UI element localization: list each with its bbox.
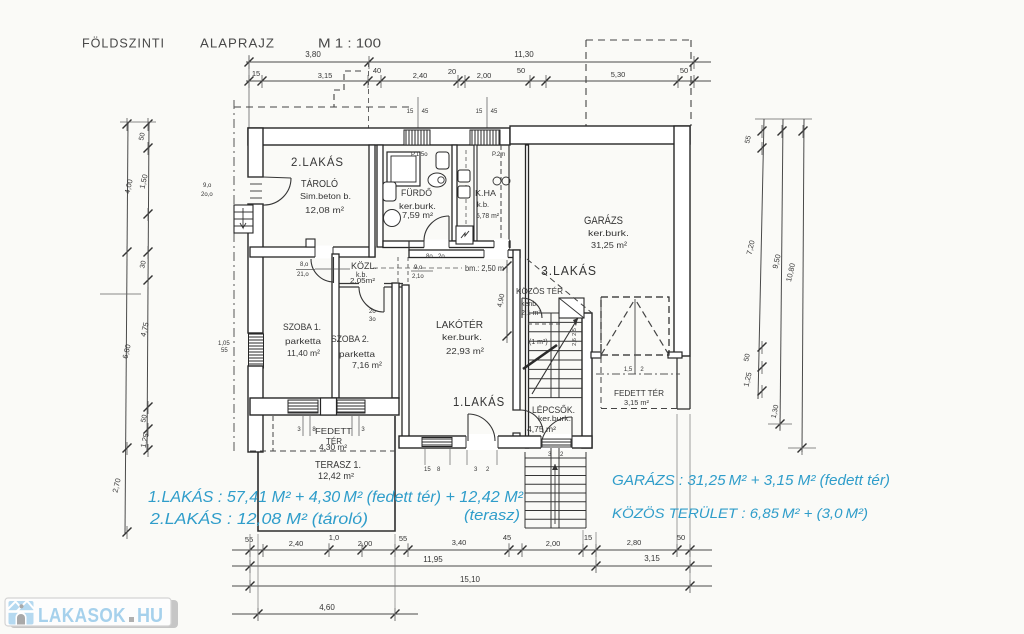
svg-text:15: 15 <box>584 533 592 542</box>
svg-text:2,5: 2,5 <box>572 328 578 336</box>
wall LAKOTER right lower <box>513 433 520 437</box>
svg-text:45: 45 <box>503 533 511 542</box>
svg-text:3: 3 <box>297 427 301 433</box>
svg-text:9,50: 9,50 <box>771 253 783 269</box>
svg-text:21,o: 21,o <box>297 272 309 278</box>
svg-text:1,50: 1,50 <box>138 173 150 189</box>
wall LAKOTER left <box>402 285 409 437</box>
svg-text:2o,o: 2o,o <box>201 192 213 198</box>
svg-text:k.b.: k.b. <box>477 200 489 209</box>
svg-text:4,75 m²: 4,75 m² <box>527 425 556 434</box>
svg-text:7,59 m²: 7,59 m² <box>402 211 433 220</box>
svg-text:2.LAKÁS : 12,08 M² (tároló): 2.LAKÁS : 12,08 M² (tároló) <box>149 511 368 528</box>
shaft boiler boxes <box>458 170 470 182</box>
dashed line fedett ter bottom <box>250 450 395 452</box>
window top W2 <box>470 130 500 145</box>
svg-text:2,00: 2,00 <box>477 71 492 80</box>
svg-text:7,16 m²: 7,16 m² <box>352 360 382 370</box>
svg-text:M 1 : 100: M 1 : 100 <box>318 36 381 51</box>
watermark house icon <box>9 601 34 625</box>
outdoor stair arrow <box>554 464 556 524</box>
svg-text:50: 50 <box>677 533 685 542</box>
svg-text:2: 2 <box>486 467 490 473</box>
door arc main entry <box>467 414 469 441</box>
svg-text:15: 15 <box>424 467 431 473</box>
svg-text:LÉPCSŐK.: LÉPCSŐK. <box>532 405 575 415</box>
dashed corridor boundary to LAKOTER <box>397 257 399 285</box>
svg-text:TÁROLÓ: TÁROLÓ <box>301 177 338 190</box>
svg-text:8,o: 8,o <box>300 262 309 268</box>
wall LAKOTER right upper <box>513 250 520 410</box>
staircase walk line with arrow <box>532 318 578 394</box>
dash-dot inner line covered parking <box>596 373 680 375</box>
closet rect kozos ter <box>559 298 584 318</box>
svg-text:55: 55 <box>245 535 253 544</box>
svg-text:10,80: 10,80 <box>784 262 797 282</box>
svg-text:2,80: 2,80 <box>627 538 642 547</box>
svg-text:50: 50 <box>138 132 147 141</box>
dashed overhang step <box>334 71 361 107</box>
svg-text:1.LAKÁS : 57,41 M² + 4,30 M²: 1.LAKÁS : 57,41 M² + 4,30 M² (fedett tér… <box>148 489 524 506</box>
svg-text:SZOBA 1.: SZOBA 1. <box>283 322 321 333</box>
svg-text:2,70: 2,70 <box>111 477 123 493</box>
svg-text:ker.burk.: ker.burk. <box>588 229 629 238</box>
svg-text:2,40: 2,40 <box>413 71 428 80</box>
svg-text:4,00: 4,00 <box>123 178 135 194</box>
svg-text:3: 3 <box>474 467 478 473</box>
svg-text:7,20: 7,20 <box>745 239 757 255</box>
left window extension line <box>100 293 141 295</box>
right dimension chain line C <box>758 119 764 399</box>
svg-text:45: 45 <box>422 109 429 115</box>
svg-text:15: 15 <box>252 69 260 78</box>
window top W1 <box>404 130 430 145</box>
svg-text:1,25: 1,25 <box>742 371 754 387</box>
top dimension chain line 2 <box>246 80 711 82</box>
svg-text:2,1o: 2,1o <box>412 274 424 280</box>
left dimension chain line B <box>147 122 149 452</box>
svg-text:50: 50 <box>743 353 752 362</box>
wall LAKOTER right door gap jambs <box>513 409 520 411</box>
entry door opening <box>466 434 498 450</box>
wall SZOBA2 right <box>392 283 399 398</box>
svg-text:15: 15 <box>407 109 414 115</box>
svg-text:ALAPRAJZ: ALAPRAJZ <box>200 36 275 51</box>
dashed diagonal to 3.LAKAS entry <box>527 259 592 313</box>
svg-text:parketta: parketta <box>339 349 375 359</box>
vertical dim 4,90 in LAKOTER <box>506 264 508 338</box>
svg-text:11,95: 11,95 <box>423 555 443 564</box>
wall bathroom right <box>452 145 457 241</box>
svg-text:(terasz): (terasz) <box>464 508 520 524</box>
svg-text:1,30: 1,30 <box>771 404 781 419</box>
right chains lower connectors <box>768 423 792 425</box>
staircase upper treads <box>528 312 582 314</box>
svg-text:20: 20 <box>448 67 456 76</box>
window bottom LAKOTER <box>422 438 452 447</box>
top dimension chain line 1 <box>246 61 711 63</box>
svg-text:3,15: 3,15 <box>644 554 660 563</box>
svg-text:2: 2 <box>560 452 564 458</box>
svg-text:FÖLDSZINTI: FÖLDSZINTI <box>82 36 165 51</box>
svg-text:Sim.beton b.: Sim.beton b. <box>300 192 351 201</box>
wall stair right <box>582 313 592 448</box>
svg-text:TERASZ 1.: TERASZ 1. <box>315 460 361 471</box>
dashed roof overhang line left block <box>234 106 410 108</box>
chimney pillar bottom wall <box>321 398 337 415</box>
svg-text:1.LAKÁS: 1.LAKÁS <box>453 394 505 409</box>
svg-text:FEDETT: FEDETT <box>315 426 352 436</box>
exterior stair at entrance <box>234 205 253 233</box>
right dimension chain line E <box>802 119 804 452</box>
staircase stringer lines <box>550 313 552 398</box>
svg-text:4,90: 4,90 <box>497 293 507 308</box>
svg-text:55: 55 <box>399 534 407 543</box>
outdoor stair rails <box>550 448 552 528</box>
wall LAKOTER top <box>409 250 520 258</box>
svg-text:15,10: 15,10 <box>460 575 481 584</box>
svg-text:2,05m²: 2,05m² <box>350 278 376 285</box>
watermark box lakasok.hu <box>10 600 178 628</box>
threshold treads in left doorway <box>250 183 262 185</box>
svg-text:22,93 m²: 22,93 m² <box>446 346 484 356</box>
extension lines fedett ter dims <box>302 415 304 436</box>
extension line at x369 dashed <box>368 62 370 128</box>
gable center post <box>634 299 636 374</box>
extension line at x249 <box>248 55 250 128</box>
gable line right <box>635 299 669 355</box>
shaft bottom box with vent <box>456 226 473 244</box>
wall TAROLO bottom <box>250 247 375 257</box>
shower tray <box>387 152 420 186</box>
opening LAKOTER top <box>484 249 508 260</box>
svg-text:9,o: 9,o <box>203 183 212 189</box>
svg-text:2,00: 2,00 <box>546 539 561 548</box>
landing dashed <box>528 323 560 325</box>
svg-text:5,78 m²: 5,78 m² <box>476 211 499 220</box>
bottom dimension chain 1 <box>232 549 712 551</box>
wall left exterior mid <box>248 204 263 333</box>
window bottom SZOBA2 <box>337 400 365 413</box>
window left wall SZOBA1 <box>249 334 264 368</box>
wall bath KHA bottom <box>383 241 510 248</box>
svg-text:5,30: 5,30 <box>611 70 626 79</box>
svg-text:2,6: 2,6 <box>572 338 578 346</box>
bottom dimension chain 3 <box>232 585 712 587</box>
svg-text:4,30 m²: 4,30 m² <box>319 443 347 452</box>
svg-text:GARÁZS : 31,25 M² + 3,15 M: GARÁZS : 31,25 M² + 3,15 M² (fedett tér) <box>612 472 890 489</box>
svg-text:FEDETT TÉR: FEDETT TÉR <box>614 388 664 398</box>
svg-text:12,42 m²: 12,42 m² <box>318 471 354 481</box>
wall TAROLO right <box>369 145 375 257</box>
wall KOZL SZOBA2 top <box>332 283 359 285</box>
shaft right line <box>474 145 477 241</box>
right dimension chain line D <box>780 119 783 430</box>
door jambs left wall entrance <box>248 176 263 178</box>
left dimension chain line A <box>125 122 128 534</box>
svg-text:55: 55 <box>221 348 228 354</box>
door arc lakoter to stairhall <box>520 410 543 433</box>
wall right lower outer pair <box>676 358 678 409</box>
WC <box>428 173 446 187</box>
wall top exterior garage <box>510 126 690 144</box>
svg-text:6,80: 6,80 <box>121 343 133 359</box>
svg-text:P.2m: P.2m <box>492 152 505 158</box>
svg-text:15: 15 <box>476 109 483 115</box>
svg-text:KÖZL.: KÖZL. <box>351 261 377 271</box>
window bottom SZOBA1 <box>288 400 318 413</box>
bottom boundary covered parking dashed <box>601 408 680 410</box>
svg-text:2,40: 2,40 <box>289 539 304 548</box>
covered parking dashed rect garage <box>601 297 669 355</box>
svg-text:1,25: 1,25 <box>139 432 151 448</box>
svg-text:50: 50 <box>517 66 525 75</box>
KHA hob circles <box>493 177 501 185</box>
svg-text:30: 30 <box>139 260 148 269</box>
terrace TERASZ outline <box>258 416 395 531</box>
door opening bathroom <box>424 240 449 250</box>
wall left exterior lower <box>248 366 263 452</box>
wall top exterior left block <box>248 128 510 145</box>
left chains top connector <box>120 121 156 123</box>
dashed vertical covered parking left <box>600 297 602 408</box>
svg-text:3: 3 <box>361 427 365 433</box>
svg-text:FÜRDŐ: FÜRDŐ <box>401 188 432 198</box>
dashed line KOZL to LAKOTER <box>373 267 462 269</box>
svg-text:50: 50 <box>680 66 688 75</box>
wall bottom SZOBA section <box>250 398 399 415</box>
threshold hatch stair exit <box>542 439 571 447</box>
svg-text:GARÁZS: GARÁZS <box>584 214 623 227</box>
door arc SZOBA1 <box>333 257 335 283</box>
svg-text:2.LAKÁS: 2.LAKÁS <box>291 154 344 169</box>
wall partition SZOBA1 SZOBA2 <box>332 254 339 398</box>
bottom dimension chain 4 <box>232 613 418 615</box>
svg-text:8: 8 <box>437 467 441 473</box>
svg-text:3,15 m²: 3,15 m² <box>624 398 649 407</box>
wall KHA right dashed pair <box>500 145 502 250</box>
bottom dimension chain 2 <box>232 565 712 567</box>
bottom extension lines <box>249 534 251 592</box>
right chain top connector <box>755 118 812 120</box>
svg-text:3o: 3o <box>369 317 376 323</box>
opening KHA bottom <box>494 240 509 250</box>
svg-text:3.LAKÁS: 3.LAKÁS <box>541 263 597 278</box>
svg-text:ker.burk.: ker.burk. <box>399 202 436 211</box>
svg-text:(1 m²): (1 m²) <box>529 339 548 346</box>
svg-text:1,05: 1,05 <box>218 341 230 347</box>
svg-text:55: 55 <box>744 135 753 144</box>
wall bathroom left <box>377 145 383 247</box>
door arc stair hall <box>571 417 573 448</box>
svg-text:HU: HU <box>137 605 163 627</box>
svg-text:LAKÓTÉR: LAKÓTÉR <box>436 318 483 331</box>
chimney notch TAROLO <box>306 239 315 247</box>
svg-text:K.HA: K.HA <box>475 189 497 198</box>
wall stair left / garage inner left <box>526 145 529 448</box>
stairhall door opening bottom <box>541 434 572 450</box>
fedett ter left boundary <box>272 416 274 451</box>
door arc SZOBA2 <box>383 287 385 312</box>
svg-text:11,40 m²: 11,40 m² <box>287 348 320 358</box>
svg-text:SZOBA 2.: SZOBA 2. <box>331 334 369 345</box>
svg-text:ker.burk.: ker.burk. <box>538 416 571 423</box>
svg-text:KÖZÖS TERÜLET : 6,85 M² + (3,: KÖZÖS TERÜLET : 6,85 M² + (3,0 M²) <box>612 504 868 521</box>
shaft dashed centerline <box>465 150 467 238</box>
kozos ter door arc <box>522 298 542 318</box>
svg-text:4,75: 4,75 <box>139 321 151 337</box>
svg-text:3,40: 3,40 <box>452 538 467 547</box>
svg-text:11,30: 11,30 <box>514 50 534 59</box>
extension lines top windows <box>417 97 419 130</box>
svg-text:3,15: 3,15 <box>318 71 333 80</box>
outdoor stair side edges <box>524 452 526 528</box>
svg-text:2: 2 <box>640 367 644 373</box>
garage bottom stub right <box>668 352 682 358</box>
svg-text:2o: 2o <box>369 309 376 315</box>
svg-text:45: 45 <box>491 109 498 115</box>
svg-text:31,25 m²: 31,25 m² <box>591 240 627 250</box>
door opening TAROLO bottom wall <box>315 246 333 259</box>
dash-dot property line left <box>233 100 235 452</box>
wall right exterior garage <box>674 126 690 356</box>
svg-text:2o: 2o <box>438 254 445 260</box>
svg-text:1,5: 1,5 <box>624 367 633 373</box>
door arc bathroom <box>448 216 450 241</box>
svg-text:4,60: 4,60 <box>319 603 335 612</box>
svg-text:2,00: 2,00 <box>358 539 373 548</box>
garage bottom stub left <box>591 352 601 358</box>
wall left exterior upper <box>248 128 263 177</box>
svg-text:8o: 8o <box>426 254 433 260</box>
sink left <box>383 182 396 201</box>
svg-text:40: 40 <box>373 66 381 75</box>
svg-text:bm.: 2,50 m: bm.: 2,50 m <box>465 264 504 273</box>
washbasin <box>436 152 449 169</box>
svg-text:12,08 m²: 12,08 m² <box>305 205 344 215</box>
wall bottom entry section <box>399 436 592 448</box>
svg-text:P.1,5o: P.1,5o <box>411 152 428 158</box>
staircase break line bold <box>523 345 557 369</box>
svg-text:LAKASOK: LAKASOK <box>38 605 126 627</box>
svg-text:ker.burk.: ker.burk. <box>442 333 482 342</box>
svg-text:kenb.: kenb. <box>521 301 538 308</box>
gable line left <box>601 299 635 355</box>
svg-text:KÖZÖS TÉR: KÖZÖS TÉR <box>516 286 563 296</box>
outdoor stair treads below <box>525 457 586 459</box>
svg-text:parketta: parketta <box>285 336 321 346</box>
svg-text:2,1 m²: 2,1 m² <box>521 310 542 317</box>
dashed roof outline over garage <box>586 39 691 41</box>
washing machine circle <box>384 210 401 227</box>
svg-text:1,0: 1,0 <box>329 533 339 542</box>
door arc TAROLO entrance <box>263 177 291 178</box>
svg-text:3,80: 3,80 <box>305 50 321 59</box>
